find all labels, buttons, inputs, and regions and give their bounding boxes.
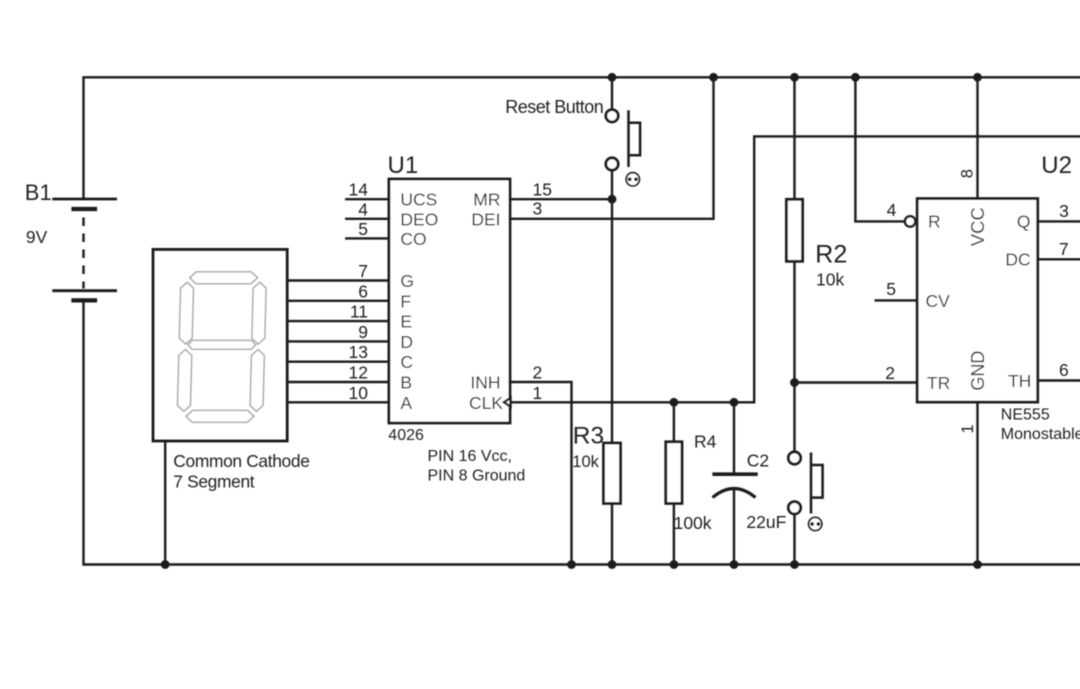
svg-text:PIN 16 Vcc,: PIN 16 Vcc,	[428, 448, 512, 465]
svg-text:E: E	[400, 312, 412, 332]
svg-text:R: R	[928, 212, 941, 232]
svg-text:Reset Button: Reset Button	[505, 97, 603, 117]
svg-text:22uF: 22uF	[746, 512, 786, 532]
svg-text:TR: TR	[927, 373, 950, 393]
svg-text:9: 9	[358, 322, 368, 342]
svg-text:9V: 9V	[26, 227, 48, 247]
svg-text:10k: 10k	[572, 453, 599, 471]
svg-text:12: 12	[349, 363, 368, 383]
svg-text:U1: U1	[388, 152, 419, 179]
svg-text:INH: INH	[470, 373, 500, 393]
svg-text:8: 8	[958, 169, 976, 178]
svg-text:4026: 4026	[388, 427, 424, 444]
svg-text:B: B	[400, 373, 412, 393]
svg-text:Common Cathode: Common Cathode	[173, 451, 309, 471]
svg-text:DC: DC	[1005, 250, 1030, 270]
svg-text:G: G	[400, 271, 414, 291]
svg-text:GND: GND	[968, 351, 988, 391]
svg-text:5: 5	[358, 219, 368, 239]
svg-text:7: 7	[358, 261, 368, 281]
svg-text:NE555: NE555	[1001, 407, 1050, 424]
svg-text:UCS: UCS	[400, 190, 437, 210]
svg-text:100k: 100k	[674, 513, 712, 533]
svg-text:10k: 10k	[816, 269, 844, 289]
svg-text:6: 6	[1059, 360, 1069, 380]
svg-text:7: 7	[1059, 239, 1069, 259]
svg-text:4: 4	[358, 199, 368, 219]
svg-text:1: 1	[533, 383, 543, 403]
svg-text:10: 10	[349, 383, 369, 403]
svg-text:Q: Q	[1017, 212, 1031, 232]
svg-text:R3: R3	[573, 423, 604, 450]
svg-text:4: 4	[887, 200, 897, 220]
svg-text:R4: R4	[694, 431, 717, 451]
svg-text:TH: TH	[1008, 371, 1031, 391]
svg-text:D: D	[400, 332, 413, 352]
svg-text:2: 2	[885, 363, 895, 383]
svg-text:6: 6	[358, 281, 368, 301]
svg-text:DEI: DEI	[471, 209, 500, 229]
svg-text:2: 2	[533, 363, 543, 383]
svg-text:11: 11	[350, 302, 368, 322]
svg-text:C: C	[400, 352, 413, 372]
svg-text:5: 5	[886, 279, 896, 299]
svg-text:CLK: CLK	[469, 393, 503, 413]
svg-text:7 Segment: 7 Segment	[173, 471, 254, 491]
svg-text:C2: C2	[747, 451, 769, 471]
svg-text:MR: MR	[473, 190, 500, 210]
svg-text:DEO: DEO	[400, 209, 438, 229]
svg-text:Monostable: Monostable	[1001, 426, 1080, 443]
svg-text:R2: R2	[815, 240, 847, 268]
svg-text:PIN 8 Ground: PIN 8 Ground	[428, 468, 526, 485]
svg-text:CV: CV	[926, 291, 951, 311]
svg-text:3: 3	[533, 199, 543, 219]
svg-text:3: 3	[1059, 201, 1069, 221]
svg-text:U2: U2	[1041, 152, 1072, 179]
svg-text:B1: B1	[25, 180, 52, 205]
svg-text:13: 13	[349, 342, 368, 362]
svg-text:14: 14	[349, 180, 369, 200]
svg-text:F: F	[400, 291, 411, 311]
svg-text:CO: CO	[400, 229, 426, 249]
svg-text:VCC: VCC	[967, 207, 988, 246]
svg-text:A: A	[400, 393, 412, 413]
svg-text:1: 1	[959, 424, 977, 433]
svg-text:15: 15	[533, 180, 552, 200]
